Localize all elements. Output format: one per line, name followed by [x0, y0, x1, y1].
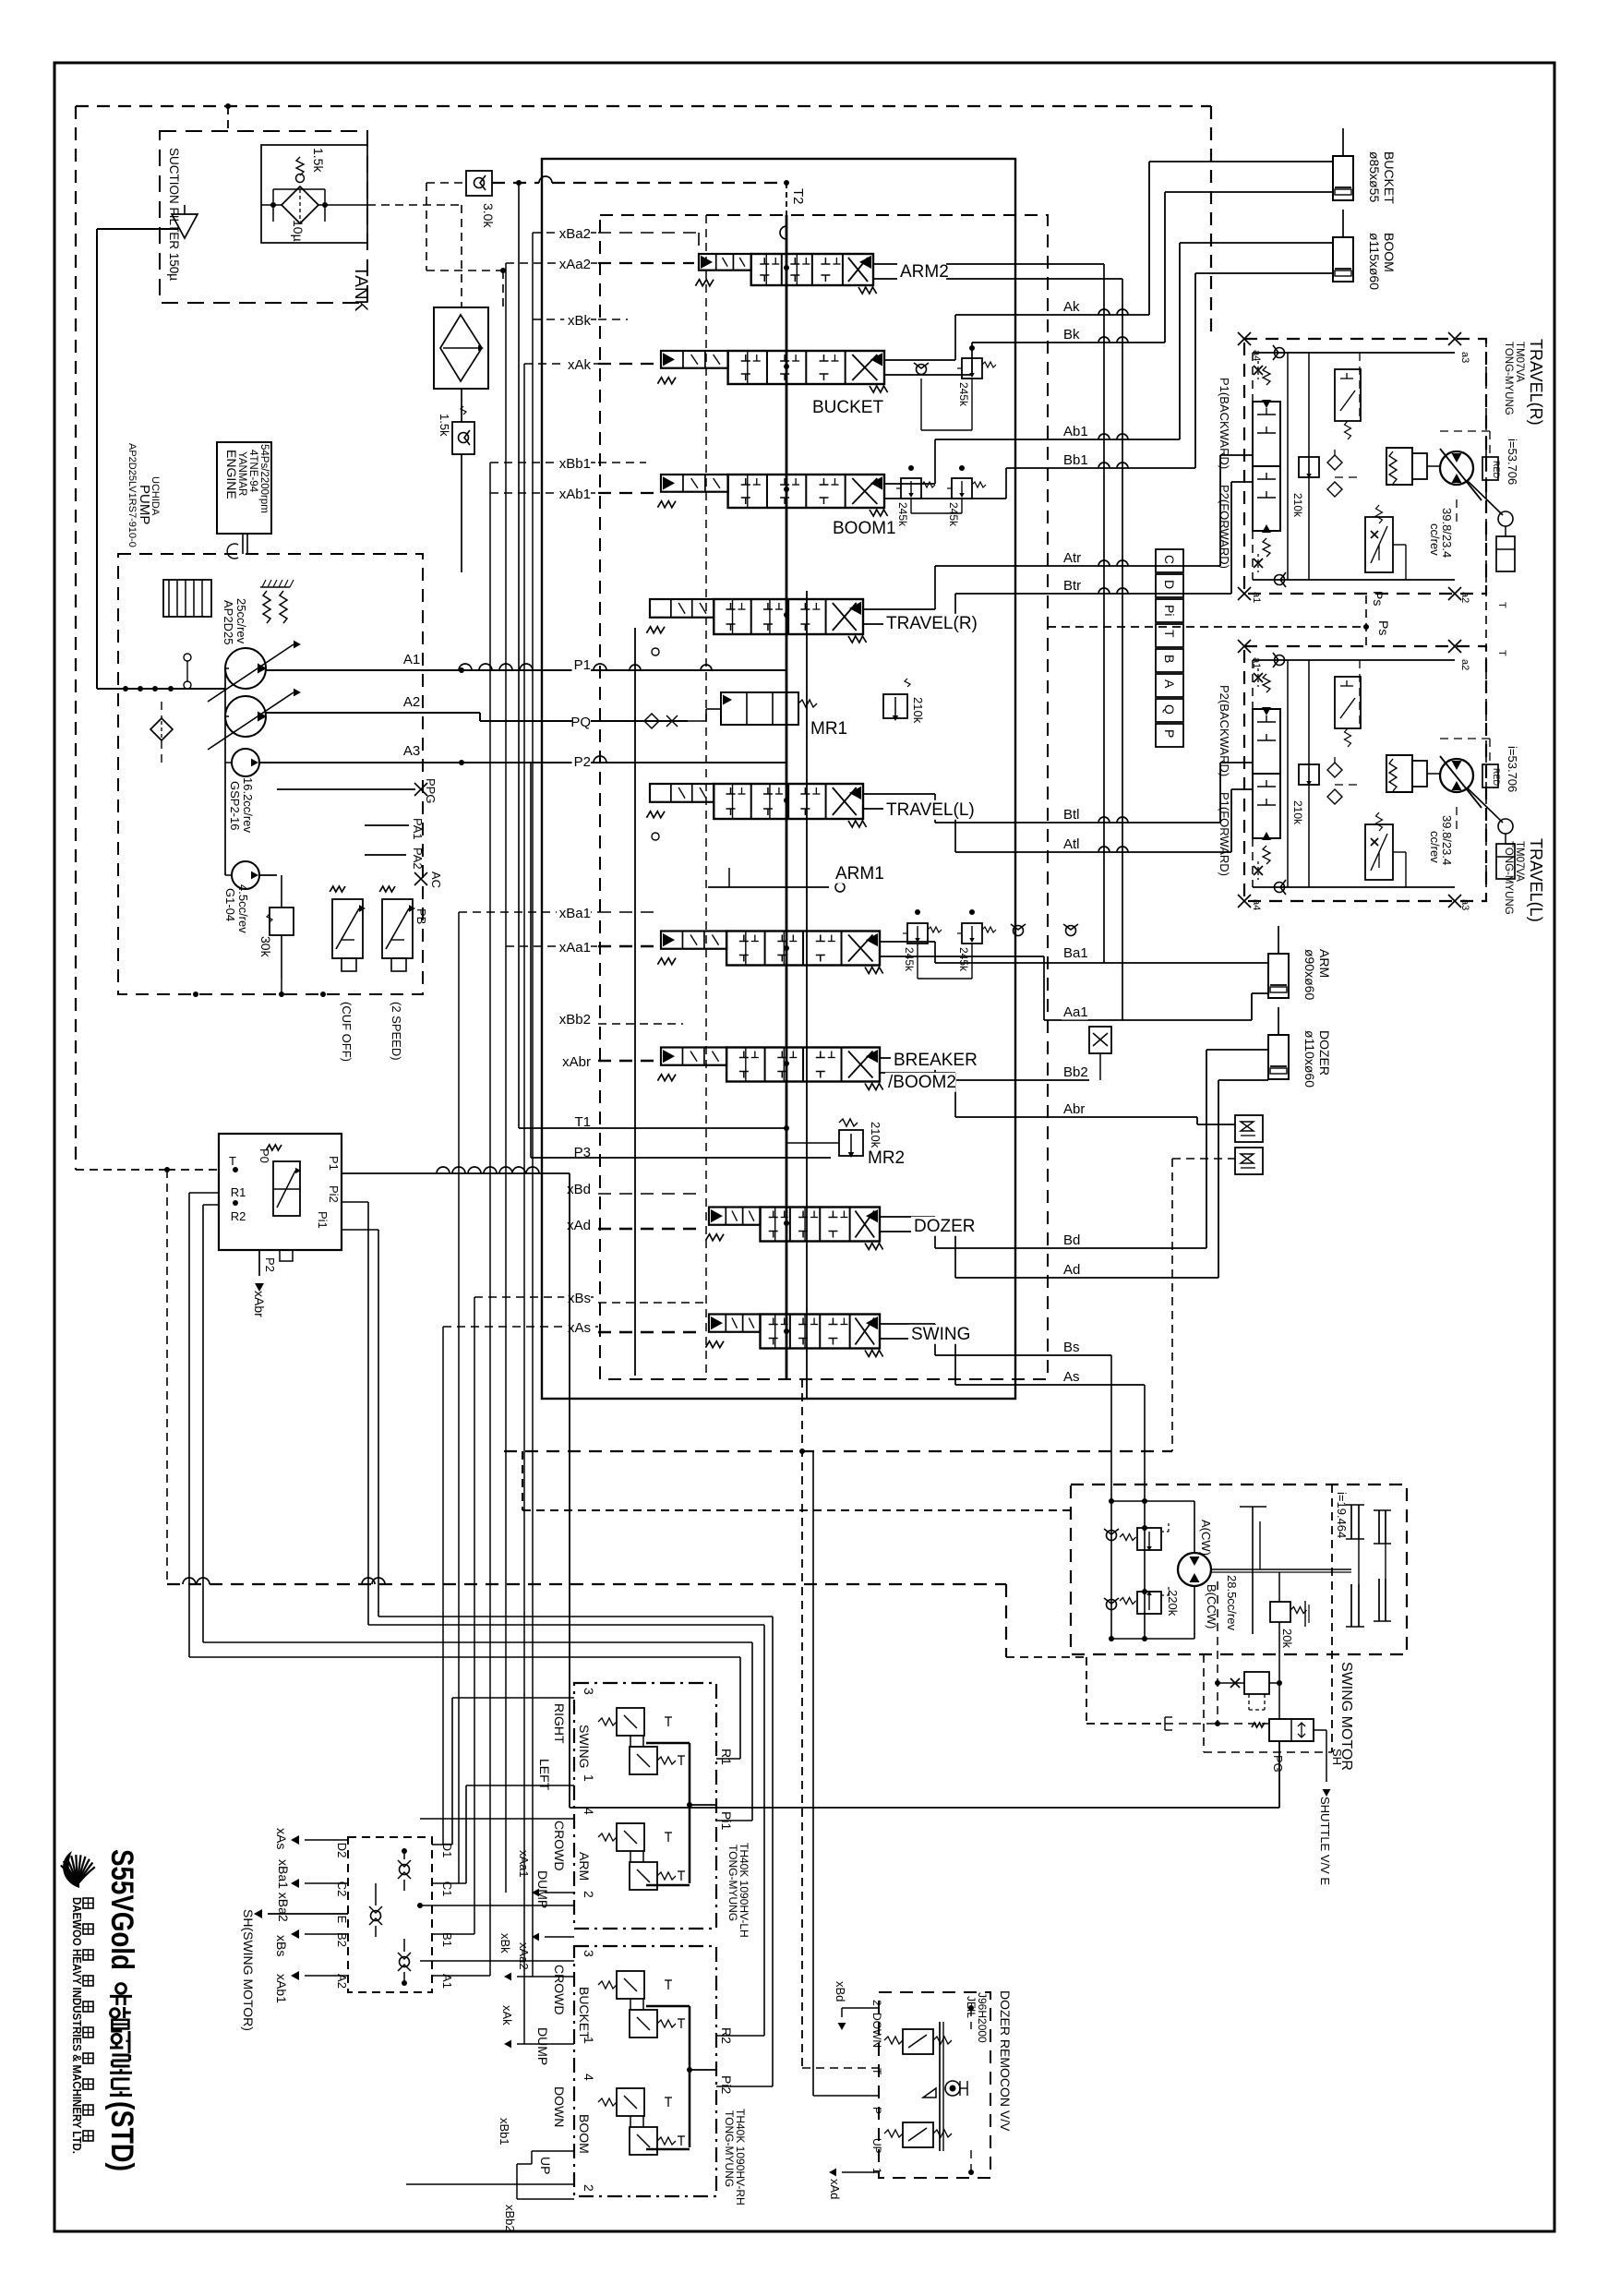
svg-text:T2: T2: [790, 188, 806, 205]
svg-text:TH40K 1090HV-RH: TH40K 1090HV-RH: [734, 2109, 747, 2206]
svg-text:xBs: xBs: [274, 1935, 289, 1956]
svg-text:BUCKET: BUCKET: [577, 1987, 592, 2039]
svg-text:RED: RED: [1492, 768, 1501, 787]
svg-text:Bs: Bs: [1063, 1340, 1080, 1355]
svg-text:SWING: SWING: [911, 1325, 970, 1344]
svg-text:Btr: Btr: [1063, 578, 1081, 594]
svg-text:220k: 220k: [1166, 1590, 1180, 1617]
svg-text:B: B: [1162, 655, 1177, 663]
svg-text:LEFT: LEFT: [537, 1759, 552, 1791]
svg-text:Bb2: Bb2: [1063, 1064, 1088, 1080]
svg-text:xAk: xAk: [500, 2005, 514, 2026]
svg-text:Pi2: Pi2: [719, 2075, 734, 2094]
svg-text:1: 1: [870, 2168, 883, 2174]
svg-text:AP2D25: AP2D25: [222, 600, 235, 644]
svg-text:AP2D25LV1RS7-910-0: AP2D25LV1RS7-910-0: [126, 443, 138, 547]
svg-text:cc/rev: cc/rev: [1428, 831, 1442, 863]
svg-text:xBk: xBk: [568, 313, 592, 329]
svg-text:Ak: Ak: [1063, 299, 1080, 315]
svg-text:3: 3: [582, 1688, 596, 1695]
svg-text:P: P: [1162, 729, 1177, 738]
svg-text:C: C: [1162, 555, 1177, 564]
svg-text:xBb2: xBb2: [503, 2205, 517, 2232]
svg-text:T: T: [870, 2068, 883, 2075]
svg-text:xAa2: xAa2: [559, 257, 591, 272]
svg-text:R1: R1: [231, 1185, 246, 1199]
svg-text:P1: P1: [574, 657, 591, 673]
svg-text:1.5k: 1.5k: [311, 148, 326, 173]
svg-text:SUCTION FILTER 150µ: SUCTION FILTER 150µ: [167, 148, 181, 281]
svg-text:PA1: PA1: [411, 818, 425, 840]
svg-text:2: 2: [582, 2184, 596, 2192]
svg-text:PG: PG: [1271, 1755, 1285, 1773]
svg-text:3.0k: 3.0k: [481, 203, 496, 228]
svg-text:UP: UP: [870, 2138, 883, 2154]
svg-text:xBs: xBs: [568, 1291, 591, 1306]
svg-text:xBa1 xBa2: xBa1 xBa2: [276, 1859, 291, 1922]
svg-text:A1: A1: [403, 652, 420, 667]
svg-text:S55VGold: S55VGold: [104, 1849, 139, 1970]
svg-text:2: 2: [582, 1891, 596, 1898]
svg-text:245k: 245k: [957, 947, 970, 972]
svg-text:Pi1: Pi1: [316, 1211, 330, 1229]
svg-text:210k: 210k: [1291, 800, 1304, 825]
svg-text:MR2: MR2: [868, 1148, 905, 1168]
svg-text:Ba1: Ba1: [1063, 945, 1088, 961]
svg-text:TONG-MYUNG: TONG-MYUNG: [1503, 342, 1514, 415]
svg-text:xBb2: xBb2: [559, 1012, 591, 1028]
svg-text:i=53.706: i=53.706: [1506, 439, 1519, 485]
svg-text:A2: A2: [403, 694, 420, 710]
svg-text:30k: 30k: [258, 936, 273, 958]
svg-text:10µ: 10µ: [291, 220, 306, 242]
svg-text:G1-04: G1-04: [223, 888, 237, 921]
svg-text:UP: UP: [538, 2157, 553, 2174]
svg-text:BOOM: BOOM: [577, 2114, 592, 2154]
svg-text:PQ: PQ: [570, 715, 591, 730]
svg-text:Atl: Atl: [1063, 836, 1080, 852]
svg-text:TM07VA: TM07VA: [1514, 841, 1525, 882]
svg-text:ø110xø60: ø110xø60: [1302, 1030, 1317, 1088]
svg-text:ARM2: ARM2: [900, 262, 949, 282]
svg-text:DOZER: DOZER: [914, 1217, 976, 1236]
svg-text:xAa2: xAa2: [517, 1942, 531, 1970]
svg-text:a1: a1: [1251, 592, 1262, 603]
svg-text:TANK: TANK: [351, 266, 370, 312]
svg-text:xBa2: xBa2: [559, 226, 591, 242]
svg-text:A3: A3: [403, 743, 420, 759]
svg-text:DOZER REMOCON V/V: DOZER REMOCON V/V: [998, 1990, 1013, 2132]
svg-text:E: E: [335, 1916, 349, 1924]
svg-text:T: T: [1496, 602, 1507, 608]
svg-text:1: 1: [582, 1774, 596, 1782]
svg-text:SH(SWING MOTOR): SH(SWING MOTOR): [241, 1909, 256, 2031]
svg-text:a3: a3: [1459, 899, 1470, 910]
svg-text:Q: Q: [1162, 704, 1177, 715]
svg-text:Pi: Pi: [1162, 605, 1177, 616]
svg-text:(CUF OFF): (CUF OFF): [340, 1002, 354, 1062]
svg-text:16.2cc/rev: 16.2cc/rev: [241, 777, 255, 833]
svg-text:R1: R1: [719, 1749, 734, 1765]
svg-text:a2: a2: [1459, 659, 1470, 670]
svg-text:20k: 20k: [1280, 1629, 1294, 1648]
svg-text:ARM: ARM: [1317, 949, 1332, 978]
svg-text:28.5cc/rev: 28.5cc/rev: [1225, 1575, 1239, 1630]
svg-text:a2: a2: [1459, 592, 1470, 603]
svg-text:245k: 245k: [896, 502, 909, 527]
svg-text:ø90xø60: ø90xø60: [1302, 949, 1317, 1000]
svg-text:J96H2000: J96H2000: [976, 1992, 989, 2043]
svg-text:xBd: xBd: [567, 1182, 591, 1197]
svg-text:xBb1: xBb1: [559, 456, 591, 472]
svg-text:TRAVEL(L): TRAVEL(L): [1527, 838, 1545, 922]
svg-text:DUMP: DUMP: [535, 2027, 550, 2065]
svg-text:T: T: [229, 1154, 236, 1168]
svg-text:xAs: xAs: [568, 1320, 591, 1336]
svg-text:245k: 245k: [957, 382, 970, 407]
svg-text:ARM: ARM: [577, 1852, 592, 1881]
svg-text:cc/rev: cc/rev: [1428, 523, 1442, 556]
svg-text:As: As: [1063, 1369, 1080, 1385]
svg-text:DOZER: DOZER: [1317, 1030, 1332, 1076]
svg-text:T: T: [1496, 650, 1507, 656]
svg-text:Abr: Abr: [1063, 1101, 1085, 1117]
svg-text:BUCKET: BUCKET: [812, 398, 883, 417]
svg-text:i=19.464: i=19.464: [1335, 1492, 1349, 1538]
svg-text:R2: R2: [231, 1209, 246, 1223]
svg-text:P0: P0: [258, 1148, 271, 1163]
svg-text:3: 3: [582, 1950, 596, 1957]
svg-text:YANMAR: YANMAR: [236, 451, 247, 496]
svg-text:PB: PB: [414, 908, 428, 924]
svg-text:xBb1: xBb1: [498, 2118, 511, 2146]
svg-text:Pi2: Pi2: [327, 1185, 341, 1203]
svg-text:4: 4: [582, 2074, 596, 2081]
svg-text:4TNE-94: 4TNE-94: [247, 450, 258, 493]
svg-text:PA2: PA2: [411, 847, 425, 870]
svg-text:xAa1: xAa1: [559, 940, 591, 956]
svg-text:A: A: [1162, 679, 1177, 689]
svg-text:xBd: xBd: [834, 1981, 847, 2001]
svg-text:RED: RED: [1492, 461, 1501, 479]
svg-text:UCHIDA: UCHIDA: [150, 476, 161, 516]
svg-text:CROWD: CROWD: [552, 1821, 567, 1870]
svg-text:1: 1: [582, 2037, 596, 2044]
svg-text:(2 SPEED): (2 SPEED): [390, 1002, 403, 1061]
svg-text:a4: a4: [1251, 899, 1262, 910]
svg-text:TH40K 1090HV-LH: TH40K 1090HV-LH: [738, 1843, 750, 1938]
svg-text:xAbr: xAbr: [562, 1054, 591, 1070]
svg-text:Pi1: Pi1: [719, 1811, 734, 1830]
svg-text:xAk: xAk: [568, 357, 592, 373]
svg-text:xBk: xBk: [498, 1933, 512, 1953]
svg-text:PPG: PPG: [424, 778, 438, 803]
svg-text:i=53.706: i=53.706: [1506, 746, 1519, 792]
svg-text:Bk: Bk: [1063, 327, 1080, 343]
svg-text:DAEWOO HEAVY INDUSTRIES &: DAEWOO HEAVY INDUSTRIES & MACHINERY LTD.: [70, 1897, 83, 2154]
svg-text:SHUTTLE V/V E: SHUTTLE V/V E: [1318, 1797, 1332, 1885]
svg-text:ø115xø60: ø115xø60: [1367, 233, 1382, 290]
svg-text:2: 2: [870, 2000, 883, 2006]
svg-text:BOOM1: BOOM1: [833, 519, 896, 538]
svg-text:SWING: SWING: [577, 1725, 592, 1768]
svg-text:xAd: xAd: [828, 2179, 842, 2199]
svg-text:TONG-MYUNG: TONG-MYUNG: [723, 2110, 736, 2187]
svg-text:RIGHT: RIGHT: [552, 1703, 567, 1744]
svg-text:CROWD: CROWD: [552, 1965, 567, 2014]
svg-text:BREAKER: BREAKER: [894, 1051, 978, 1070]
svg-text:D2: D2: [335, 1843, 349, 1858]
svg-text:GSP2-16: GSP2-16: [228, 781, 242, 830]
svg-text:T: T: [1162, 630, 1177, 638]
svg-text:Ab1: Ab1: [1063, 424, 1088, 439]
svg-text:Ad: Ad: [1063, 1262, 1080, 1278]
svg-text:P2: P2: [574, 754, 591, 770]
svg-text:TONG-MYUNG: TONG-MYUNG: [1503, 841, 1514, 915]
svg-text:xBa1: xBa1: [559, 906, 591, 921]
svg-text:BUCKET: BUCKET: [1382, 151, 1397, 204]
svg-text:DOWN: DOWN: [552, 2086, 567, 2127]
svg-text:25cc/rev: 25cc/rev: [234, 598, 248, 644]
svg-text:TONG-MYUNG: TONG-MYUNG: [726, 1845, 739, 1921]
svg-text:AC: AC: [429, 872, 443, 888]
svg-text:ø85xø55: ø85xø55: [1367, 151, 1382, 202]
svg-text:P2: P2: [263, 1257, 277, 1272]
svg-text:210k: 210k: [869, 1122, 882, 1148]
svg-text:xAb1: xAb1: [559, 487, 591, 502]
svg-text:Bb1: Bb1: [1063, 452, 1088, 468]
svg-text:4: 4: [582, 1808, 596, 1815]
svg-text:TRAVEL(R): TRAVEL(R): [1527, 339, 1545, 426]
svg-text:xAb1: xAb1: [274, 1974, 289, 2003]
svg-text:R2: R2: [719, 2027, 734, 2044]
svg-text:1.5k: 1.5k: [438, 414, 451, 437]
svg-text:4.5cc/rev: 4.5cc/rev: [236, 884, 250, 933]
svg-text:xAs: xAs: [274, 1828, 289, 1849]
svg-text:MR1: MR1: [810, 719, 847, 739]
svg-text:DOWN: DOWN: [870, 2013, 883, 2048]
svg-text:Ps: Ps: [1376, 620, 1391, 635]
svg-text:(STD): (STD): [104, 2101, 139, 2171]
svg-text:ARM1: ARM1: [835, 864, 884, 884]
svg-text:B(CCW): B(CCW): [1205, 1584, 1218, 1629]
svg-text:/BOOM2: /BOOM2: [888, 1073, 956, 1092]
svg-text:210k: 210k: [911, 697, 925, 724]
svg-text:245k: 245k: [903, 947, 916, 972]
svg-text:TRAVEL(L): TRAVEL(L): [886, 800, 975, 820]
svg-text:TRAVEL(R): TRAVEL(R): [886, 614, 978, 633]
svg-text:245k: 245k: [947, 502, 960, 527]
svg-text:SWING MOTOR: SWING MOTOR: [1338, 1662, 1354, 1771]
svg-text:Btl: Btl: [1063, 807, 1080, 823]
svg-text:xAbr: xAbr: [252, 1291, 267, 1317]
svg-text:A(CW): A(CW): [1199, 1520, 1213, 1556]
svg-text:TM07VA: TM07VA: [1514, 342, 1525, 382]
svg-text:xAa1: xAa1: [517, 1850, 531, 1878]
svg-text:P: P: [870, 2107, 883, 2114]
svg-text:D: D: [1162, 580, 1177, 589]
svg-text:210k: 210k: [1291, 493, 1304, 518]
svg-text:Bd: Bd: [1063, 1232, 1080, 1248]
svg-text:a3: a3: [1459, 352, 1470, 363]
svg-text:Atr: Atr: [1063, 550, 1081, 566]
svg-text:54Ps/2200rpm: 54Ps/2200rpm: [258, 444, 270, 513]
svg-text:xAd: xAd: [567, 1218, 591, 1233]
svg-text:BOOM: BOOM: [1382, 233, 1397, 272]
svg-text:P1: P1: [327, 1156, 341, 1171]
svg-text:Aa1: Aa1: [1063, 1004, 1088, 1020]
